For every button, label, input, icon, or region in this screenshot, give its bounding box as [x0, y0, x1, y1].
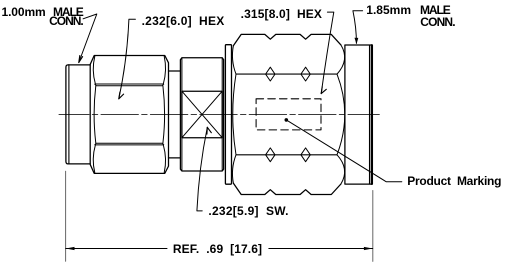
wrench flat X diagonal 1 — [182, 91, 222, 138]
hex2 corner diamond upper-left — [266, 67, 275, 81]
label .315[8.0] HEX — [241, 8, 322, 20]
leader for .232 SW label — [197, 127, 207, 211]
left dimension extension line — [65, 171, 67, 261]
wrench-flat section inner vertical edges — [182, 58, 222, 171]
hex1 top-right corner arc — [163, 56, 165, 84]
arrowhead 1.85mm leader — [355, 38, 359, 45]
dimension arrow left — [66, 247, 75, 250]
hex2 lower-left face arc — [232, 155, 236, 184]
hex2 upper-left face arc — [232, 46, 236, 75]
hex2 lower-right face arc — [337, 155, 345, 184]
label .232[6.0] HEX — [142, 15, 225, 27]
label REF. .69 [17.6] — [173, 243, 262, 255]
arrowhead .315 HEX leader — [321, 87, 326, 94]
hex nut body 1 (.232 HEX) silhouette — [90, 56, 168, 174]
hex nut body 2 (.315 HEX) top silhouette — [233, 34, 341, 45]
dimension arrow right — [364, 247, 373, 250]
hex2 right mid bulge arc — [337, 74, 345, 155]
hex2 upper hex edge line — [236, 73, 337, 75]
hex1 top-left corner arc — [93, 56, 95, 84]
wrench flat square — [182, 91, 222, 138]
1.00mm male connector flange inner edge — [68, 65, 70, 164]
1.85mm male connector body — [345, 45, 373, 184]
right dimension extension line — [372, 191, 374, 262]
hex2 bottom silhouette — [233, 183, 341, 194]
dimension line right segment — [269, 248, 373, 250]
leader for .232 HEX label — [119, 19, 136, 99]
hex1 bottom-right corner arc — [163, 145, 165, 173]
hex1 upper flat edge lines — [95, 84, 164, 86]
hex1 left face bulge arc — [94, 86, 96, 144]
1.00mm male connector barrel — [69, 65, 90, 164]
hex1 lower flat edge lines — [95, 143, 164, 145]
1.85mm male connector face edge band — [371, 45, 373, 184]
product marking leader line — [286, 120, 402, 182]
hex2 lower hex edge line — [236, 154, 337, 156]
dimension line left segment — [66, 248, 167, 250]
leader for .315 HEX label — [321, 12, 334, 94]
centerline axis — [59, 113, 379, 115]
label CONN. (right) — [420, 16, 454, 28]
label .232[5.9] SW. — [208, 205, 288, 217]
leader for 1.00mm male conn label — [79, 14, 97, 63]
wrench-flat section (SW) outline — [180, 58, 223, 171]
hex2 upper-right face arc — [337, 45, 345, 74]
product marking leader dot — [285, 118, 289, 122]
hex2 corner diamond lower-right — [301, 148, 310, 162]
1.85mm male connector face inner edge — [369, 45, 371, 184]
hex2 corner diamond upper-right — [301, 67, 310, 81]
hex2 left mid bulge arc — [233, 74, 236, 155]
label Product Marking — [407, 175, 501, 187]
hex1 right face bulge arc — [163, 86, 165, 144]
washer flange between SW section and hex2 — [225, 45, 231, 185]
product marking dashed rectangle — [256, 99, 321, 130]
leader for 1.85mm male conn label — [353, 11, 363, 44]
label 1.00mm MALE — [2, 6, 46, 18]
arrowhead SW leader — [207, 127, 211, 134]
hex2 corner diamond lower-left — [266, 148, 275, 162]
arrowhead .232 HEX leader — [119, 92, 124, 99]
neck between hex1 and wrench-flat section — [169, 71, 181, 158]
label 1.85mm MALE — [366, 4, 411, 16]
1.00mm male connector flange — [66, 65, 69, 164]
label CONN. (left) — [49, 15, 83, 27]
wrench flat X diagonal 2 — [182, 91, 222, 138]
hex1 bottom-left corner arc — [93, 145, 95, 173]
arrowhead 1.00mm leader — [79, 56, 83, 63]
